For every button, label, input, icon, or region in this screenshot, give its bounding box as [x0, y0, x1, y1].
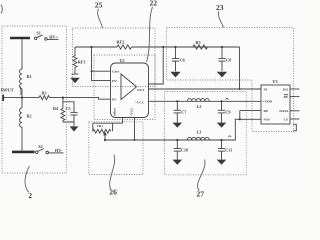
svg-text:INPUT: INPUT: [1, 88, 14, 93]
svg-text:25: 25: [95, 1, 103, 10]
svg-text:HV-: HV-: [55, 148, 63, 153]
svg-text:R2: R2: [27, 114, 32, 119]
svg-text:R5: R5: [196, 40, 201, 45]
svg-text:R1: R1: [27, 74, 32, 79]
svg-text:RF2: RF2: [117, 40, 125, 45]
svg-text:OUT: OUT: [137, 88, 145, 92]
svg-text:C11: C11: [225, 148, 232, 153]
svg-text:+VCC: +VCC: [135, 100, 145, 104]
svg-text:27: 27: [196, 190, 204, 199]
svg-text:2: 2: [28, 191, 32, 200]
svg-text:L2: L2: [197, 104, 202, 109]
svg-text:IN: IN: [264, 88, 268, 92]
svg-text:U2: U2: [120, 58, 125, 63]
svg-text:+VDD: +VDD: [263, 100, 273, 104]
svg-text:C7: C7: [181, 110, 186, 115]
svg-text:C9: C9: [225, 110, 230, 115]
svg-text:S1: S1: [36, 31, 40, 36]
svg-text:HV+: HV+: [49, 34, 58, 39]
svg-text:22: 22: [150, 0, 158, 8]
svg-text:-VCC: -VCC: [130, 107, 134, 116]
svg-text:C6: C6: [180, 58, 185, 63]
svg-text:IN-: IN-: [112, 98, 117, 102]
svg-text:R4: R4: [53, 106, 59, 111]
svg-text:Case: Case: [112, 70, 119, 74]
svg-text:S2: S2: [38, 144, 42, 149]
svg-text:L3: L3: [197, 130, 202, 135]
svg-text:DATA: DATA: [279, 109, 289, 113]
svg-text:IN+: IN+: [112, 79, 118, 83]
svg-text:offset: offset: [113, 107, 117, 116]
svg-text:DO: DO: [283, 88, 288, 92]
svg-text:BE: BE: [283, 95, 288, 99]
svg-text:RE: RE: [264, 109, 269, 113]
svg-text:-VSS: -VSS: [263, 118, 270, 122]
svg-text:R3: R3: [42, 90, 47, 95]
svg-text:C8: C8: [226, 58, 231, 63]
svg-text:RF1: RF1: [78, 60, 86, 65]
svg-text:C5: C5: [66, 106, 71, 111]
svg-text:CS: CS: [284, 117, 288, 121]
svg-text:23: 23: [216, 3, 224, 12]
svg-text:C10: C10: [181, 148, 188, 153]
svg-text:VR1: VR1: [97, 124, 104, 128]
svg-text:U3: U3: [273, 79, 278, 84]
